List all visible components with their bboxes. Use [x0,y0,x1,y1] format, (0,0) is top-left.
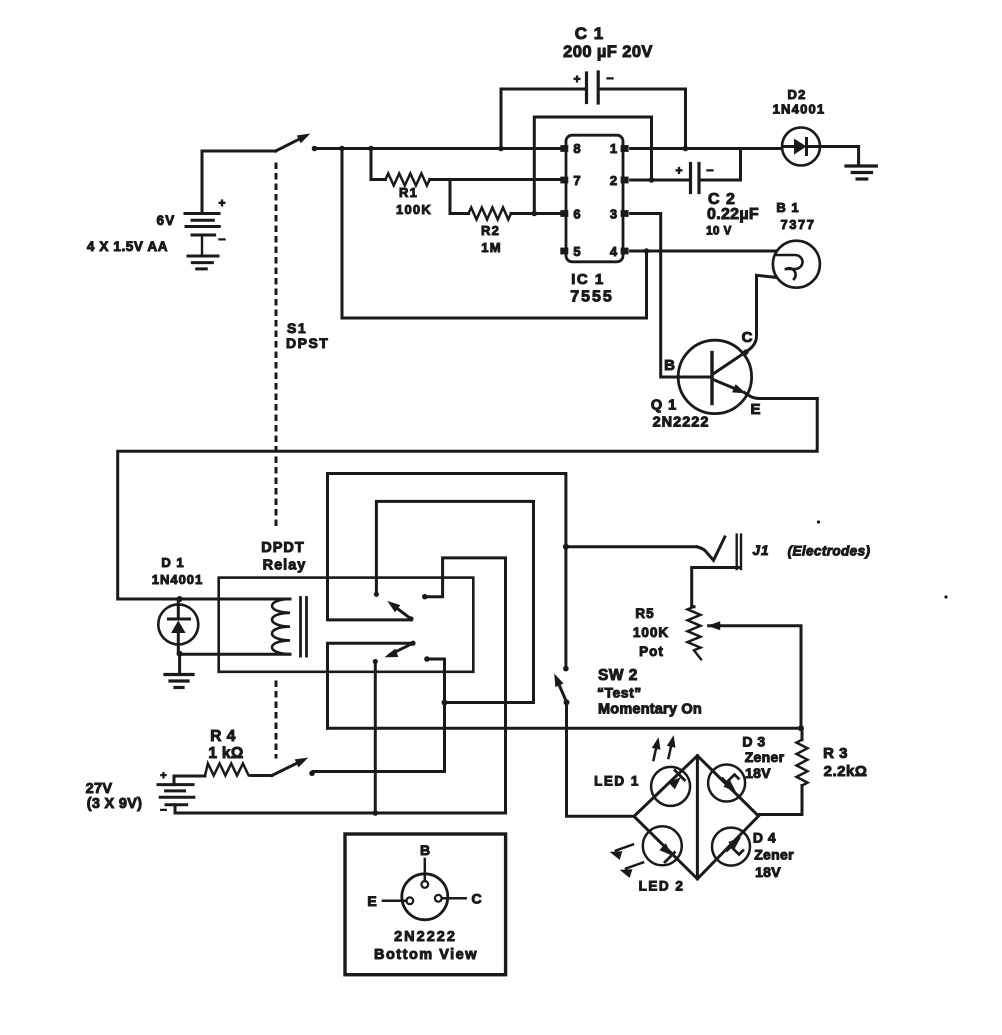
LED1 light arrows [653,737,675,761]
wire pin6 to pin2 loop [534,117,651,214]
wire R2 to pin 6 [511,212,561,215]
svg-text:–: – [606,70,613,85]
svg-text:100K: 100K [396,202,432,217]
svg-text:R2: R2 [481,223,500,238]
svg-text:5: 5 [573,244,580,259]
label 4 X 1.5V AA [87,239,168,254]
switch S1 pole B contact [309,771,315,777]
switch S1 arm [276,134,309,151]
LED1 [651,767,690,806]
wire pin4 to B1 [631,250,776,253]
label C1 value [563,43,653,61]
svg-text:R5: R5 [635,606,654,621]
label S1 DPST [286,320,329,351]
wire battery27- rail [175,805,506,813]
svg-text:IC 1: IC 1 [571,271,605,288]
svg-text:2: 2 [610,173,617,188]
svg-text:C 1: C 1 [575,24,604,43]
diode D2 symbol [782,128,820,166]
wire V+ to R1 [371,149,385,180]
svg-text:200 µF 20V: 200 µF 20V [563,43,653,61]
label IC1 7555 [570,271,614,306]
label C2 [708,191,736,208]
label Q1 2N2222 [651,398,710,431]
svg-text:DPDT: DPDT [261,540,304,556]
label D2 1N4001 [773,87,826,117]
relay pole 2 NC stub [373,659,378,813]
wire pole1-common to SW2 (rect-A) [328,474,566,669]
svg-text:R 4: R 4 [210,728,236,745]
zener D3 [708,765,745,802]
switch SW2 bottom contact [564,699,570,705]
svg-text:Q 1: Q 1 [651,398,677,414]
relay pole 1 common wire (rect-A left) [328,474,410,620]
pot R5 element [688,607,701,651]
ground (battery 6V) [188,256,218,269]
speck a [944,595,947,598]
wire Q1 emitter to relay coil [118,399,818,600]
svg-text:Zener: Zener [745,749,785,765]
label J1 Electrodes [752,543,870,559]
label B1 7377 [776,200,815,232]
svg-text:SW 2: SW 2 [598,667,638,684]
label R5 100K Pot [633,606,669,659]
svg-text:Bottom View: Bottom View [374,947,478,963]
wire J1 to R5 [692,568,739,607]
svg-text:DPST: DPST [286,335,329,351]
2N2222 pin C lead [442,897,466,900]
svg-text:–: – [160,802,167,816]
junction pin6 loop [532,211,538,217]
svg-text:100K: 100K [633,625,669,640]
label pin B [420,842,430,858]
label Q1 E [750,401,760,418]
svg-text:27V: 27V [86,781,113,797]
svg-text:18V: 18V [745,765,771,781]
label pin C [471,891,481,907]
wire SW2 to LED bridge [567,702,635,816]
label Bottom View [374,947,478,963]
junction C1 right [683,146,689,152]
svg-text:4 X 1.5V AA: 4 X 1.5V AA [87,239,168,254]
relay pole 2 common wire [328,643,414,728]
label LED 2 [639,879,685,894]
diode D1 1N4001 [158,599,198,653]
svg-text:Relay: Relay [263,558,307,574]
svg-text:D 3: D 3 [742,734,765,750]
svg-text:18V: 18V [755,864,781,880]
wire pole2-common rail to R3 [328,727,802,730]
2N2222 bottom view can [402,874,448,920]
relay pole 2 arm [386,643,413,657]
label 6V [157,213,176,228]
junction R3 top [798,725,804,731]
label LED 1 [594,774,640,789]
wire junction to R4 switch [313,703,445,772]
svg-text:+: + [218,196,225,210]
capacitor C1 polarity [573,70,613,86]
switch SW2 arm [555,675,567,702]
label pin E [367,893,376,909]
speck b [817,520,820,523]
svg-text:D2: D2 [787,87,806,102]
svg-text:C: C [471,891,481,907]
svg-text:0.22µF: 0.22µF [707,206,759,223]
pot R5 tail [694,650,701,659]
2N2222 bottom view box [345,834,506,975]
svg-text:E: E [750,401,760,418]
IC U1 7555 body [560,135,628,262]
wire battery+ to S1 [202,151,276,214]
svg-text:+: + [160,770,166,782]
wire V+ rail [315,147,561,150]
resistor R3 [759,728,808,814]
svg-text:C: C [742,329,753,346]
relay K1 box [219,578,474,672]
resistor R4 [205,764,252,776]
svg-text:1N4001: 1N4001 [152,572,204,587]
svg-text:1: 1 [610,141,617,156]
svg-text:7377: 7377 [781,217,816,232]
label R3 2.2k [823,745,867,780]
battery B2 6V plates [185,214,219,257]
label SW2 [597,667,702,718]
svg-text:LED 1: LED 1 [594,774,640,789]
2N2222 pin B lead [424,859,427,881]
svg-text:6V: 6V [157,213,176,228]
relay pole 1 arm [389,602,412,619]
label 27V [86,781,113,797]
svg-text:4: 4 [610,244,618,259]
junction J1 tap [563,544,569,550]
svg-text:1N4001: 1N4001 [773,102,826,117]
junction D1 top [177,596,183,602]
svg-text:8: 8 [573,141,580,156]
wire V+ box to pin 4 (reset tie) [342,149,647,319]
svg-text:R 3: R 3 [823,745,848,762]
capacitor C2 polarity [675,162,713,178]
LED2 light arrows [611,845,643,878]
svg-text:Momentary On: Momentary On [598,702,702,718]
junction 27V- stub [373,810,379,816]
relay pole 2 NO stub [424,656,444,702]
svg-text:–: – [706,162,713,177]
buzzer B1 7377 [773,241,820,288]
pot R5 wiper [709,622,801,728]
label R1 100K [396,185,432,217]
junction V+ c [498,146,504,152]
svg-text:J1: J1 [752,543,769,558]
wire R1 to pin 7 [430,178,561,181]
svg-text:+: + [573,72,580,86]
relay coil [272,598,307,657]
resistor R2 [469,208,512,220]
svg-text:7555: 7555 [570,289,614,306]
switch SW2 top contact [563,666,569,672]
junction Q1 collector [743,349,749,355]
ground (D2) [846,166,876,179]
label DPDT Relay [261,540,306,574]
label Q1 C [742,329,753,346]
wire rect-B bottom [445,701,534,704]
label Q1 B [664,357,675,374]
2N2222 pin E lead [383,900,407,903]
wire node to J1 [566,545,697,548]
relay pole 2 pivot [410,641,415,646]
label R4 1k [208,728,243,762]
svg-text:1M: 1M [481,240,501,255]
wire C1 right lead [601,89,686,149]
junction pin4 tie [644,248,650,254]
wire D2 to ground [820,147,859,166]
transistor Q1 collector [713,275,777,374]
wire battery27+ to R4 [174,776,205,785]
junction D1 bottom [177,651,183,657]
LED2 [643,826,682,865]
label D1 1N4001 [152,555,204,587]
svg-text:(Electrodes): (Electrodes) [788,544,871,559]
svg-text:2.2kΩ: 2.2kΩ [824,763,868,780]
label 2N2222 [394,929,457,945]
svg-text:B: B [420,842,430,858]
svg-text:+: + [675,164,682,178]
junction V+ a [339,146,345,152]
relay pole 1 pivot [408,616,413,621]
wire R4 to S1b [252,774,272,777]
svg-text:E: E [367,893,376,909]
battery 6V polarity marks [218,196,225,246]
jack J1 plug [697,537,725,560]
label C2 value [707,206,759,223]
wire C2 to pin1 rail [701,150,741,180]
ground (D1) [165,675,193,688]
IC U1 pin numbers [573,141,618,259]
battery 27V polarity [160,770,167,816]
svg-text:10 V: 10 V [706,226,732,238]
svg-text:LED 2: LED 2 [639,879,685,894]
svg-text:B 1: B 1 [776,200,799,215]
capacitor C2 plates [691,164,700,193]
wire pin1 to D2 [631,147,782,150]
switch S1 dashed gang line [275,164,278,757]
svg-text:D 1: D 1 [161,555,184,570]
transistor Q1 2N2222 body [678,340,751,413]
wire coil bottom to D1 [180,653,290,656]
relay pole 1 NO stub [422,558,506,813]
svg-text:2N2222: 2N2222 [653,415,710,431]
capacitor C1 plates [587,72,599,103]
battery B4 27V plates [158,785,194,805]
junction pin2 loop [649,177,655,183]
switch S1 contact dot [312,146,318,152]
svg-text:7: 7 [573,173,580,188]
svg-text:(3 X 9V): (3 X 9V) [87,796,143,812]
svg-text:B: B [664,357,675,374]
label 3 X 9V [87,796,143,812]
jack J1 sleeve [737,535,741,569]
switch S1 pole B arm [272,758,307,775]
wire pin2 to C2 [631,179,688,182]
zener D4 [712,828,750,866]
wire D1 to ground [178,654,181,674]
svg-text:6: 6 [573,207,580,222]
svg-text:Pot: Pot [639,644,664,659]
svg-text:3: 3 [610,207,617,222]
relay pole 1 NC stub [374,501,534,702]
wire pin3 to Q1 base [631,214,712,378]
svg-text:1 kΩ: 1 kΩ [208,745,243,762]
svg-text:Zener: Zener [754,847,794,863]
label D4 Zener 18V [753,830,794,881]
svg-text:D 4: D 4 [753,830,776,846]
svg-text:“Test”: “Test” [597,685,642,701]
wire C1 left lead [501,89,584,149]
label C2 voltage [706,226,732,238]
svg-text:2N2222: 2N2222 [394,929,457,945]
svg-text:–: – [218,231,225,246]
junction V+ b [368,146,374,152]
transistor Q1 emitter [713,380,817,399]
resistor R1 [385,174,429,186]
svg-text:R1: R1 [399,185,418,200]
label D3 Zener 18V [742,734,784,782]
junction rect-B / R4 [442,700,448,706]
label R2 1M [481,223,502,255]
LED bridge frame [634,756,759,879]
svg-text:S1: S1 [287,320,307,336]
wire junction to R2 [450,180,469,214]
label C1 [575,24,604,43]
